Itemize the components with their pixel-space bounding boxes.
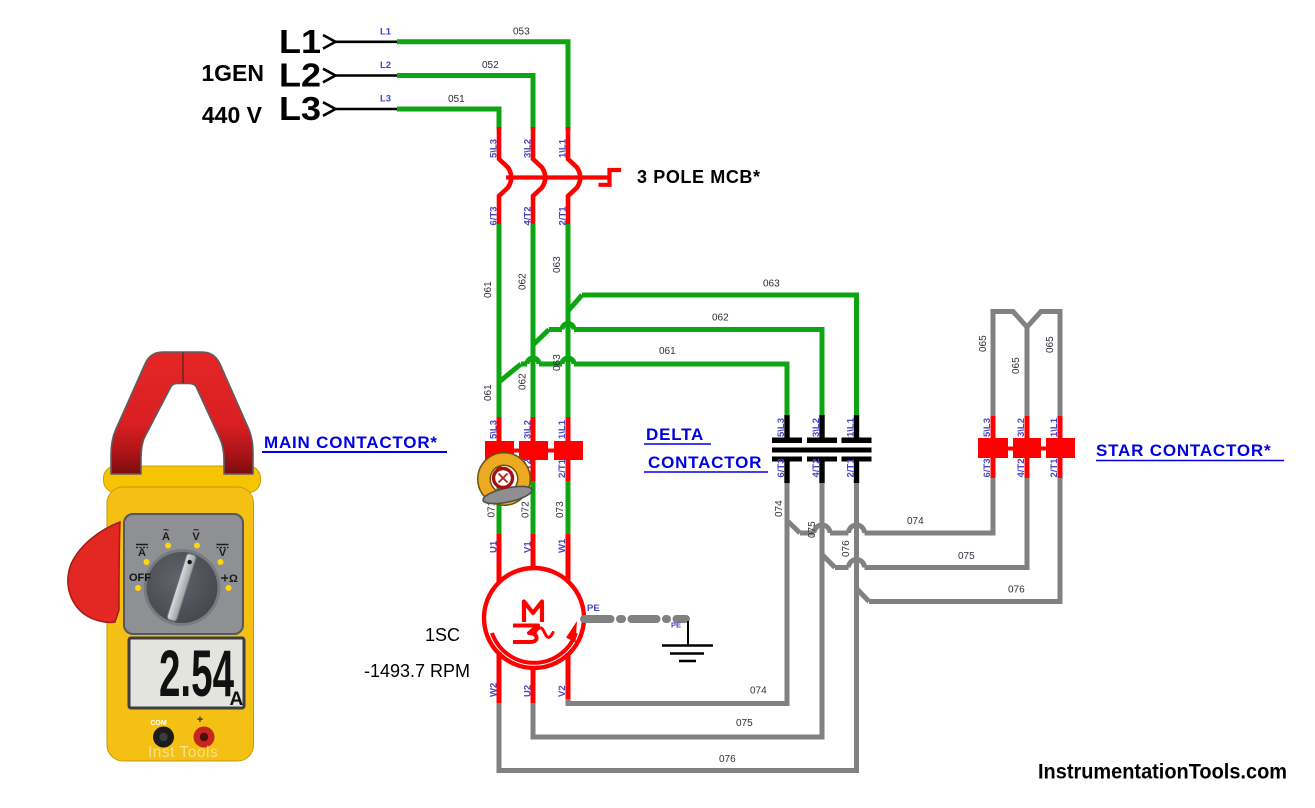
svg-text:L2: L2 (380, 60, 391, 71)
clamp probe jaw around wire 071 (482, 459, 534, 507)
wire U2 red (531, 666, 536, 705)
svg-text:MAIN CONTACTOR*: MAIN CONTACTOR* (264, 433, 438, 452)
wire 074 hop over 075 (814, 525, 830, 533)
wire V1 red to motor (531, 534, 536, 570)
svg-text:075: 075 (736, 718, 753, 729)
dial pointer (167, 553, 197, 622)
svg-text:STAR CONTACTOR*: STAR CONTACTOR* (1096, 441, 1271, 460)
svg-text:075: 075 (807, 521, 818, 538)
main contactor link 2-3 (546, 449, 556, 453)
svg-text:061: 061 (483, 384, 494, 401)
delta contactor stem 6/T3 bottom (784, 461, 789, 483)
svg-text:075: 075 (958, 551, 975, 562)
svg-text:074: 074 (907, 516, 924, 527)
svg-text:063: 063 (552, 354, 563, 371)
MCB pole 1 (L3 phase) (499, 127, 511, 226)
svg-text:4/T2: 4/T2 (1016, 458, 1027, 477)
wire 074 hop over 076 (849, 525, 865, 533)
wire 065 middle leg (1025, 325, 1030, 418)
wire 073 green segment (566, 481, 571, 535)
clamp meter holster flap (68, 522, 120, 622)
wire 061 hop over 062 (527, 358, 539, 364)
wire 076 star branch diagonal (857, 589, 870, 602)
wire 074 run to star (865, 477, 994, 533)
motor rotation arrowhead (566, 621, 577, 643)
SECTION: green verticals and branches (499, 224, 857, 419)
SECTION: clamp meter (68, 352, 261, 761)
svg-text:4/T2: 4/T2 (523, 206, 534, 225)
svg-text:076: 076 (719, 754, 736, 765)
delta contactor stem 2/T1 bottom (854, 461, 859, 483)
svg-text:Inst Tools: Inst Tools (148, 744, 218, 761)
title underline (262, 451, 447, 453)
wire 062 branch diagonal (533, 330, 549, 346)
svg-text:076: 076 (1008, 585, 1025, 596)
star contactor K3 pole 3 (1046, 438, 1075, 458)
wire W1 red to motor (566, 534, 571, 583)
svg-text:5\L3: 5\L3 (982, 418, 993, 437)
delta contactor K2 bottom plate 1 (772, 457, 802, 462)
wire 071 green segment (497, 488, 502, 535)
wire 061 segment (539, 362, 562, 367)
delta contactor K2 top plate 1 (772, 438, 802, 444)
svg-text:051: 051 (448, 94, 465, 105)
clamp jaw seam (182, 353, 184, 384)
SECTION: delta contactor (644, 415, 872, 483)
wire 075 run to star (865, 477, 1028, 568)
wire 062 vertical (531, 224, 536, 419)
arrow L2 (323, 69, 336, 83)
wire 074 motor run (568, 481, 787, 704)
motor rotation arrow arc (492, 633, 576, 663)
star contactor K3 pole 2 (1013, 438, 1041, 458)
wire V2 red (566, 653, 571, 701)
svg-text:2/T1: 2/T1 (558, 206, 569, 226)
svg-text:1\L1: 1\L1 (557, 419, 568, 439)
svg-text:1SC: 1SC (425, 625, 460, 645)
svg-text:065: 065 (978, 335, 989, 352)
delta contactor stem 5\L3 top (784, 415, 789, 439)
svg-text:074: 074 (750, 686, 767, 697)
clamp meter collar (104, 466, 261, 493)
wire 063 run to delta (582, 295, 857, 417)
wire 071 red segment (497, 459, 502, 490)
wire L1 black lead (336, 40, 400, 43)
MCB pole 3 (L1 phase) (568, 127, 580, 226)
svg-text:V: V (219, 547, 227, 559)
SECTION: main contactor (262, 417, 583, 584)
svg-text:L2: L2 (279, 57, 321, 94)
motor 1SC body circle (484, 568, 584, 668)
svg-text:DELTA: DELTA (646, 425, 704, 444)
star contactor link 1-2 (1006, 447, 1015, 451)
svg-text:062: 062 (712, 313, 729, 324)
wire 075 hop over 076 (849, 560, 865, 568)
MCB common trip bar (506, 175, 610, 179)
svg-text:CONTACTOR: CONTACTOR (648, 453, 762, 472)
motor 3-phase mark (513, 626, 538, 643)
svg-text:L1: L1 (380, 27, 392, 38)
dial legend continuity ohm (221, 575, 228, 582)
wire 063 vertical (566, 224, 571, 419)
svg-text:5\L3: 5\L3 (776, 418, 787, 437)
SECTION: source input (201, 23, 568, 130)
svg-text:065: 065 (1045, 336, 1056, 353)
svg-text:063: 063 (552, 256, 563, 273)
delta contactor stem 4/T2 bottom (819, 461, 824, 483)
SECTION: gray bottom net (499, 477, 1060, 771)
wire 065 star point merge (993, 312, 1060, 419)
svg-text:COM: COM (150, 720, 167, 727)
svg-text:2.54: 2.54 (159, 636, 234, 710)
main contactor K1 pole 2 (519, 441, 548, 460)
svg-text:061: 061 (659, 346, 676, 357)
delta contactor K2 bottom plate 3 (842, 457, 872, 462)
dial selection dots (135, 543, 232, 592)
wire 062 branch segment (549, 327, 562, 332)
clamp meter body (107, 487, 254, 761)
svg-text:5\L3: 5\L3 (489, 420, 500, 439)
SECTION: motor (364, 568, 713, 705)
svg-text:A: A (138, 547, 146, 559)
wire PE chain (584, 615, 686, 623)
plus terminal (194, 727, 215, 748)
svg-text:InstrumentationTools.com: InstrumentationTools.com (1038, 761, 1287, 784)
delta contactor stem 3\L2 top (819, 415, 824, 439)
arrow L3 (323, 102, 336, 116)
ground symbol (662, 646, 713, 662)
wire 075 motor run (533, 481, 822, 737)
delta contactor K2 top plate 2 (807, 438, 837, 444)
wire 074 star branch diagonal (787, 521, 800, 534)
meter LCD (129, 638, 244, 708)
wire L3 black lead (336, 108, 400, 111)
wire 074 star branch segment (800, 531, 814, 536)
svg-text:3\L2: 3\L2 (811, 418, 822, 437)
svg-text:1GEN: 1GEN (201, 60, 264, 86)
svg-text:6/T3: 6/T3 (489, 206, 500, 225)
delta contactor K2 bottom plate 2 (807, 457, 837, 462)
wire 061 hop over 063 (562, 358, 574, 364)
svg-text:+: + (197, 714, 203, 726)
svg-text:~: ~ (163, 525, 169, 536)
main contactor input stub 3\L2 (531, 417, 536, 443)
star contactor output stub 2/T1 (1058, 457, 1063, 478)
svg-text:6/T3: 6/T3 (982, 458, 993, 477)
wire L2 black lead (336, 74, 400, 77)
svg-text:PE: PE (587, 603, 600, 614)
svg-text:OFF: OFF (129, 572, 151, 584)
svg-text:061: 061 (483, 281, 494, 298)
wire 063 branch diagonal (568, 295, 582, 311)
main contactor input stub 5\L3 (497, 417, 502, 443)
title underline (1096, 460, 1284, 462)
svg-text:065: 065 (1011, 357, 1022, 374)
wire 072 red segment (531, 459, 536, 483)
svg-text:062: 062 (518, 273, 529, 290)
svg-text:1\L1: 1\L1 (558, 138, 569, 158)
main contactor K1 pole 3 (554, 441, 583, 460)
wire 076 run to star (869, 477, 1060, 602)
svg-text:073: 073 (555, 501, 566, 518)
delta contactor K2 bridge bar (772, 448, 872, 453)
svg-text:~: ~ (193, 525, 199, 536)
svg-text:1\L1: 1\L1 (846, 417, 857, 437)
star contactor output stub 4/T2 (1025, 457, 1030, 478)
svg-text:4/T2: 4/T2 (811, 458, 822, 477)
delta contactor K2 top plate 3 (842, 438, 872, 444)
delta contactor stem 1\L1 top (854, 415, 859, 439)
svg-text:053: 053 (513, 27, 530, 38)
MCB operating handle (599, 170, 622, 185)
svg-text:5\L3: 5\L3 (489, 139, 500, 158)
title DELTA underline (644, 443, 711, 445)
svg-text:L3: L3 (279, 90, 321, 127)
svg-text:-1493.7 RPM: -1493.7 RPM (364, 661, 470, 681)
wire 073 red segment (566, 459, 571, 483)
motor sine mark (535, 628, 554, 637)
svg-text:3\L2: 3\L2 (523, 139, 534, 158)
svg-text:3 POLE MCB*: 3 POLE MCB* (637, 167, 761, 187)
svg-text:2/T1: 2/T1 (1049, 458, 1060, 478)
svg-text:Ω: Ω (229, 573, 238, 585)
wire 051 green (397, 109, 499, 130)
wire 062 hop over 063 (562, 324, 574, 330)
wire U1 red to motor (497, 534, 502, 584)
svg-text:440 V: 440 V (202, 102, 263, 128)
wire 061 vertical (497, 224, 502, 419)
main contactor link 1-2 (512, 449, 521, 453)
wire 053 green (397, 42, 568, 130)
svg-text:L1: L1 (279, 23, 321, 60)
wire W2 red (497, 652, 502, 705)
svg-text:L3: L3 (380, 94, 391, 105)
wire 052 green (397, 76, 533, 131)
svg-text:074: 074 (774, 500, 785, 517)
wire 061 run to delta (574, 364, 787, 417)
SECTION: footer (1038, 761, 1287, 784)
svg-text:052: 052 (482, 60, 499, 71)
svg-text:6/T3: 6/T3 (776, 458, 787, 477)
svg-text:3\L2: 3\L2 (1016, 418, 1027, 437)
ground lead (687, 621, 689, 645)
star contactor input stub 3\L2 (1025, 416, 1030, 440)
wire 075 star branch segment (835, 565, 849, 570)
svg-text:PE: PE (671, 621, 681, 630)
wire 076 motor run (499, 481, 857, 771)
meter front panel (124, 514, 243, 634)
star contactor input stub 5\L3 (991, 416, 996, 440)
wire 072 green segment (531, 481, 536, 535)
svg-text:062: 062 (518, 373, 529, 390)
svg-text:076: 076 (841, 540, 852, 557)
star contactor K3 pole 1 (978, 438, 1008, 458)
star contactor link 2-3 (1039, 447, 1048, 451)
main contactor input stub 1\L1 (566, 417, 571, 443)
main contactor K1 pole 1 (485, 441, 514, 460)
star contactor input stub 1\L1 (1058, 416, 1063, 440)
arrow L1 (323, 35, 336, 49)
wire 074 segment (830, 531, 849, 536)
star contactor output stub 6/T3 (991, 457, 996, 478)
SECTION: mcb (489, 127, 761, 226)
svg-text:063: 063 (763, 279, 780, 290)
COM terminal (153, 727, 174, 748)
svg-text:3\L2: 3\L2 (523, 420, 534, 439)
svg-text:1\L1: 1\L1 (1049, 417, 1060, 437)
wire 061 branch horizontal (521, 362, 527, 367)
svg-text:2/T1: 2/T1 (846, 458, 857, 478)
svg-text:A: A (230, 689, 244, 710)
wire 075 star branch diagonal (822, 555, 835, 568)
wire 062 run to delta (574, 330, 822, 418)
wire 061 branch diagonal (499, 364, 521, 382)
SECTION: star contactor (978, 312, 1284, 479)
MCB pole 2 (L2 phase) (533, 127, 545, 226)
motor letter M (524, 602, 542, 623)
svg-text:072: 072 (521, 501, 532, 518)
title CONTACTOR underline (644, 471, 768, 473)
